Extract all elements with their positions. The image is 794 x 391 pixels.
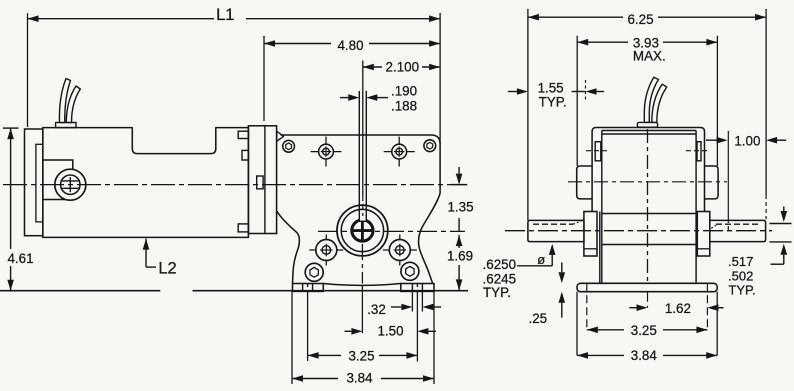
svg-text:MAX.: MAX. xyxy=(633,49,666,64)
svg-text:L1: L1 xyxy=(216,6,234,24)
svg-text:.188: .188 xyxy=(391,98,417,113)
svg-text:1.00: 1.00 xyxy=(734,134,760,149)
svg-text:.6250: .6250 xyxy=(483,257,517,272)
svg-text:1.35: 1.35 xyxy=(447,199,473,214)
svg-text:TYP.: TYP. xyxy=(728,283,755,298)
svg-text:3.25: 3.25 xyxy=(348,348,374,363)
svg-text:3.25: 3.25 xyxy=(631,323,657,338)
svg-text:ø: ø xyxy=(537,252,545,267)
svg-text:3.84: 3.84 xyxy=(631,348,658,363)
svg-text:.502: .502 xyxy=(728,269,753,284)
svg-text:.517: .517 xyxy=(728,254,753,269)
svg-text:1.50: 1.50 xyxy=(377,323,403,338)
svg-text:1.62: 1.62 xyxy=(665,301,691,316)
svg-text:TYP.: TYP. xyxy=(483,285,511,300)
svg-text:6.25: 6.25 xyxy=(627,12,653,27)
svg-text:TYP.: TYP. xyxy=(539,94,567,109)
svg-text:2.100: 2.100 xyxy=(386,60,420,75)
svg-text:4.80: 4.80 xyxy=(337,38,363,53)
svg-text:L2: L2 xyxy=(158,260,176,278)
svg-text:4.61: 4.61 xyxy=(7,251,33,266)
svg-text:.25: .25 xyxy=(528,311,547,326)
svg-text:.190: .190 xyxy=(391,84,417,99)
svg-text:3.84: 3.84 xyxy=(346,371,373,386)
svg-text:.32: .32 xyxy=(367,302,386,317)
svg-text:1.69: 1.69 xyxy=(447,248,473,263)
